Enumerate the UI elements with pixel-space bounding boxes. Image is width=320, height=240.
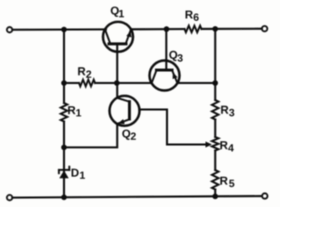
- label R5: [220, 177, 234, 187]
- label R3: [221, 106, 234, 117]
- node base bus junction: [114, 80, 120, 86]
- label R4: [220, 141, 233, 151]
- label D1: [72, 169, 85, 179]
- label R6: [186, 11, 199, 21]
- resistor R2: [79, 80, 95, 87]
- label R2: [78, 67, 91, 78]
- terminal top-left: [7, 27, 12, 32]
- node bottom rail at right rail: [212, 194, 218, 200]
- terminal bottom-right: [262, 193, 267, 198]
- resistor R4: [212, 137, 219, 151]
- wire R2 left stub: [64, 82, 79, 84]
- wiper arrow into R4: [206, 142, 213, 148]
- wire right rail between R4 R5: [214, 151, 216, 171]
- node emitter wire at left branch: [61, 145, 67, 151]
- resistor R1: [61, 103, 68, 122]
- wire Q2 base to R4 wiper: [139, 110, 206, 145]
- wire right rail between R3 R4: [214, 120, 216, 138]
- wire top rail right: [202, 28, 262, 30]
- wire bottom rail: [12, 196, 262, 198]
- resistor R6: [185, 26, 202, 33]
- wire Q2 emitter down and left: [64, 124, 117, 148]
- wire Q3 emitter to right rail: [177, 82, 215, 84]
- label R1: [68, 106, 81, 116]
- wire left branch vertical upper: [63, 30, 65, 103]
- transistor Q2: [110, 96, 140, 126]
- node top rail to left branch: [61, 27, 67, 33]
- wire top rail middle: [131, 28, 185, 30]
- node top rail to right rail: [212, 26, 218, 32]
- wire top rail left: [12, 28, 106, 30]
- wire Q1 base to Q2 collector: [116, 45, 118, 98]
- terminal top-right: [262, 26, 267, 31]
- label Q2: [122, 130, 136, 140]
- transistor Q1: [103, 22, 133, 52]
- resistor R5: [212, 170, 219, 190]
- node Q3 emitter at right rail: [212, 80, 218, 86]
- wire right rail upper: [214, 29, 216, 100]
- wire left branch vertical lower: [63, 122, 65, 198]
- resistor R3: [212, 100, 219, 120]
- node top rail to Q3 base: [164, 26, 170, 32]
- node R2 left: [61, 80, 67, 86]
- label Q3: [169, 51, 182, 62]
- wire right rail lower: [214, 190, 216, 197]
- transistor Q3: [150, 61, 180, 91]
- label Q1: [111, 7, 124, 18]
- terminal bottom-left: [7, 195, 12, 200]
- wire Q3 base drop: [165, 29, 167, 69]
- wire R2 to Q3 collector: [95, 82, 152, 84]
- diode D1 zener: [59, 167, 69, 179]
- node bottom rail at D1: [61, 194, 67, 200]
